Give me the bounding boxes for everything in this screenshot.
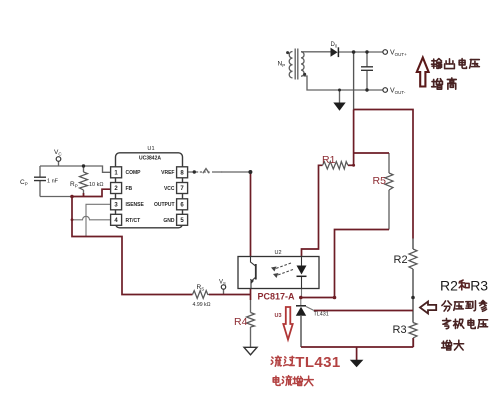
- svg-text:R3: R3: [393, 324, 407, 336]
- svg-text:U3: U3: [275, 313, 282, 319]
- svg-text:VCC: VCC: [164, 186, 175, 192]
- svg-text:R2: R2: [440, 277, 458, 293]
- svg-text:ISENSE: ISENSE: [126, 202, 145, 208]
- svg-text:PC817-A: PC817-A: [258, 292, 296, 302]
- svg-text:4.99 kΩ: 4.99 kΩ: [193, 302, 211, 308]
- svg-text:R4: R4: [234, 316, 248, 328]
- svg-text:TL431: TL431: [314, 312, 329, 318]
- svg-text:FB: FB: [126, 186, 133, 192]
- svg-text:RT/CT: RT/CT: [126, 218, 141, 224]
- svg-text:R1: R1: [322, 154, 336, 166]
- svg-text:10 kΩ: 10 kΩ: [89, 182, 104, 188]
- svg-text:U1: U1: [147, 146, 154, 152]
- svg-text:R2: R2: [394, 254, 408, 266]
- svg-text:1 nF: 1 nF: [47, 179, 59, 185]
- svg-text:R3: R3: [470, 277, 488, 293]
- svg-text:U2: U2: [275, 250, 282, 256]
- svg-text:VREF: VREF: [161, 170, 174, 176]
- svg-text:R5: R5: [373, 175, 387, 187]
- svg-text:D0: D0: [331, 42, 338, 48]
- svg-text:OUTPUT: OUTPUT: [154, 202, 175, 208]
- svg-text:COMP: COMP: [126, 170, 142, 176]
- svg-text:VS: VS: [219, 280, 226, 286]
- svg-text:TL431: TL431: [295, 354, 340, 371]
- svg-text:GND: GND: [163, 218, 175, 224]
- svg-text:UC3842A: UC3842A: [139, 156, 161, 162]
